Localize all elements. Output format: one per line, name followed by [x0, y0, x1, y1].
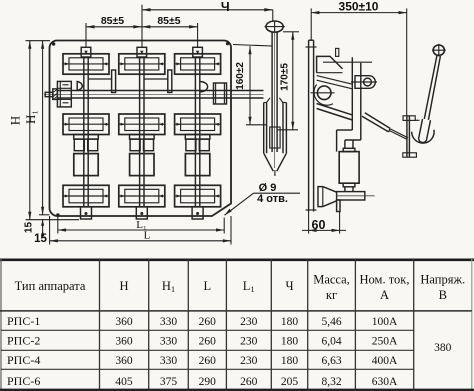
svg-text:260: 260 [199, 336, 217, 348]
dimension H1 [42, 41, 44, 215]
svg-text:Н: Н [119, 279, 128, 293]
dimension Ч top [142, 9, 273, 11]
svg-text:6,04: 6,04 [321, 336, 341, 348]
svg-text:100А: 100А [372, 316, 398, 328]
pole 2 [119, 47, 165, 219]
svg-text:405: 405 [115, 376, 133, 388]
lower bracket diagonals [317, 104, 353, 121]
svg-text:Ч: Ч [221, 0, 230, 14]
L extension left [49, 216, 51, 245]
pole 1 [63, 47, 109, 219]
svg-text:360: 360 [115, 336, 133, 348]
switch body outline [50, 41, 232, 217]
bottom bar [337, 192, 365, 200]
svg-text:250А: 250А [372, 336, 398, 348]
shaft lower line [58, 97, 264, 99]
fuse stem [344, 187, 346, 192]
left coupling block [57, 81, 71, 107]
svg-text:350±10: 350±10 [339, 0, 379, 14]
holder taper tip [264, 153, 287, 171]
L extension right [230, 216, 232, 245]
pivot circle [317, 86, 331, 100]
svg-text:Напряж.: Напряж. [420, 273, 465, 287]
dim extension pole3 [197, 23, 199, 47]
svg-text:кг: кг [326, 288, 337, 302]
dim extension pole1 [85, 23, 87, 47]
svg-text:85±5: 85±5 [157, 15, 180, 27]
svg-text:230: 230 [240, 316, 258, 328]
mounting hole dot top-left [52, 42, 55, 45]
table outer border [0, 258, 474, 261]
link rod [390, 129, 408, 139]
svg-text:260: 260 [199, 316, 217, 328]
dimension L1 [58, 229, 224, 231]
svg-text:L: L [203, 279, 211, 293]
table column lines [99, 259, 101, 389]
svg-text:15: 15 [34, 233, 47, 245]
table row lines [1, 329, 414, 331]
svg-text:РПС-2: РПС-2 [7, 334, 40, 348]
svg-text:180: 180 [281, 336, 299, 348]
svg-text:4 отв.: 4 отв. [257, 193, 288, 205]
svg-text:630А: 630А [372, 376, 398, 388]
svg-text:330: 330 [160, 355, 178, 367]
dimension 15 second [41, 230, 44, 236]
H1 bottom tick [39, 214, 50, 216]
table header separator [0, 310, 472, 312]
L1 extension right [223, 218, 225, 234]
dimension 350±10 [310, 8, 312, 40]
top bracket tab [336, 48, 339, 56]
svg-text:А: А [380, 288, 389, 302]
svg-text:160±2: 160±2 [235, 62, 246, 90]
link line pole2 to tab2 [144, 78, 168, 80]
shaft cam pole1 [77, 82, 82, 91]
svg-text:360: 360 [115, 316, 133, 328]
160 top reference line [233, 45, 272, 47]
handle bracket [406, 116, 408, 157]
pole 3 [175, 47, 221, 219]
post flange [337, 129, 353, 131]
pivot lug [355, 76, 375, 89]
svg-text:Н: Н [8, 116, 23, 125]
top bracket funnel [317, 56, 343, 72]
body top extension tick [26, 40, 51, 42]
svg-text:Ном. ток,: Ном. ток, [360, 273, 410, 287]
svg-text:230: 230 [240, 355, 258, 367]
svg-text:Н₁: Н₁ [23, 110, 38, 124]
dimension 160±2 [249, 46, 251, 125]
svg-text:400А: 400А [372, 355, 398, 367]
left coupling hatched block [53, 89, 58, 100]
svg-text:180: 180 [281, 355, 299, 367]
mounting hole dot bottom-left [56, 213, 59, 216]
fuse top cap [343, 148, 355, 151]
svg-text:РПС-6: РПС-6 [7, 374, 40, 388]
shaft upper line [58, 90, 264, 92]
dim extension pole2 [141, 5, 143, 47]
shaft cam pole3 [200, 82, 208, 92]
svg-text:180: 180 [281, 316, 299, 328]
handle lever [424, 56, 437, 119]
svg-text:5,46: 5,46 [321, 316, 341, 328]
dimension H [29, 41, 31, 220]
lever lower tube [419, 119, 431, 142]
svg-text:260: 260 [240, 376, 258, 388]
svg-text:205: 205 [281, 376, 299, 388]
right coupling block [214, 83, 227, 104]
svg-text:РПС-1: РПС-1 [7, 314, 40, 328]
svg-text:380: 380 [434, 342, 452, 354]
svg-text:260: 260 [199, 355, 217, 367]
dimension 60 [308, 212, 310, 234]
L1 extension left [57, 217, 59, 234]
bottom plane extension tick [26, 219, 80, 221]
extracted knife blade: knob [272, 10, 274, 21]
left coupling cap [45, 92, 53, 96]
shaft tab 1 [112, 70, 116, 93]
mounting plate [308, 40, 310, 211]
lug arm [317, 76, 353, 89]
fuse body [339, 152, 359, 184]
fuse holder walls [263, 103, 265, 154]
dimension 85±5 second [142, 26, 198, 28]
svg-text:375: 375 [160, 376, 178, 388]
svg-text:60: 60 [312, 218, 326, 232]
link tube [362, 113, 390, 132]
svg-text:290: 290 [199, 376, 217, 388]
svg-text:РПС-4: РПС-4 [7, 353, 40, 367]
mounting hole dot top-right [226, 42, 229, 45]
svg-text:230: 230 [240, 336, 258, 348]
svg-text:Масса,: Масса, [313, 273, 350, 287]
svg-text:Ч: Ч [285, 279, 293, 293]
svg-text:330: 330 [160, 316, 178, 328]
svg-text:360: 360 [115, 355, 133, 367]
shaft tab 2 [168, 70, 172, 93]
svg-text:15: 15 [24, 222, 35, 234]
fuse link inner rect [270, 127, 280, 148]
svg-text:6,63: 6,63 [321, 355, 341, 367]
dimension 85±5 first [86, 26, 142, 28]
svg-text:L: L [144, 229, 151, 241]
fuse holder flare [267, 98, 271, 103]
svg-text:8,32: 8,32 [321, 376, 341, 388]
extracted knife blade: blade [271, 32, 273, 152]
handle curl [412, 130, 434, 143]
dimension 170±5 [292, 32, 294, 130]
svg-text:В: В [439, 288, 447, 302]
svg-text:330: 330 [160, 336, 178, 348]
link line pole1 to tab1 [88, 78, 112, 80]
svg-text:85±5: 85±5 [101, 15, 124, 27]
bottom tab [337, 200, 340, 212]
central post [351, 57, 353, 130]
handle knob [433, 45, 444, 55]
fuse bottom cap [343, 183, 355, 187]
dimension L [50, 240, 231, 242]
dimension 15 vertical [42, 220, 44, 230]
shaft center line [44, 93, 264, 95]
svg-text:Тип аппарата: Тип аппарата [15, 279, 86, 293]
bottom funnel [318, 187, 323, 207]
svg-text:170±5: 170±5 [279, 63, 290, 91]
